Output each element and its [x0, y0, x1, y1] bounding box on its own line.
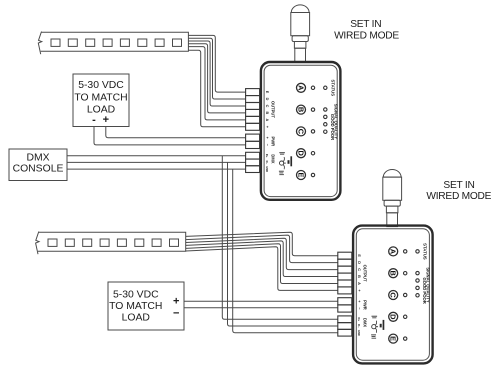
svg-text:A: A: [265, 119, 269, 122]
svg-text:TO MATCH: TO MATCH: [109, 301, 162, 312]
svg-text:DMX: DMX: [271, 154, 276, 163]
svg-text:A: A: [357, 282, 361, 285]
svg-text:5-30 VDC: 5-30 VDC: [78, 80, 124, 91]
svg-text:D+: D+: [265, 154, 269, 158]
svg-text:D: D: [389, 314, 398, 320]
svg-text:STATUS: STATUS: [423, 243, 428, 260]
svg-text:D: D: [296, 151, 305, 157]
svg-text:E: E: [265, 91, 269, 94]
svg-text:B: B: [389, 271, 398, 276]
svg-text:B: B: [265, 112, 269, 115]
svg-text:GND: GND: [265, 166, 269, 172]
svg-text:+: +: [173, 296, 179, 308]
svg-text:E: E: [357, 254, 361, 257]
svg-text:LOAD: LOAD: [87, 104, 115, 115]
svg-text:E: E: [389, 336, 398, 341]
svg-text:-: -: [92, 114, 96, 126]
svg-text:B: B: [296, 107, 305, 112]
svg-text:DMX: DMX: [26, 153, 49, 164]
svg-text:SET IN: SET IN: [350, 19, 381, 30]
svg-text:CONSOLE: CONSOLE: [13, 164, 64, 175]
svg-text:D: D: [265, 98, 269, 101]
svg-text:GOOD POOR: GOOD POOR: [330, 114, 335, 140]
svg-text:C: C: [296, 129, 305, 135]
svg-text:D−: D−: [357, 324, 361, 328]
svg-text:D−: D−: [265, 161, 269, 165]
svg-text:WIRED MODE: WIRED MODE: [334, 31, 399, 42]
svg-text:A: A: [389, 249, 398, 255]
svg-text:A: A: [296, 85, 305, 91]
svg-text:OUTPUT: OUTPUT: [271, 101, 276, 118]
svg-text:WIRED MODE: WIRED MODE: [426, 191, 491, 202]
svg-text:C: C: [357, 268, 361, 271]
svg-text:LOAD: LOAD: [122, 312, 150, 323]
svg-text:GOOD POOR: GOOD POOR: [422, 277, 427, 303]
svg-text:D: D: [357, 261, 361, 264]
svg-text:5-30 VDC: 5-30 VDC: [113, 289, 159, 300]
svg-text:D+: D+: [357, 318, 361, 322]
svg-text:SET IN: SET IN: [443, 180, 474, 191]
svg-text:OUTPUT: OUTPUT: [363, 265, 368, 282]
svg-text:GND: GND: [357, 330, 361, 336]
svg-text:TO MATCH: TO MATCH: [74, 92, 127, 103]
svg-text:C: C: [389, 292, 398, 298]
svg-text:E: E: [296, 173, 305, 178]
svg-text:PWR: PWR: [363, 300, 368, 310]
svg-text:B: B: [357, 275, 361, 278]
svg-text:+: +: [103, 114, 109, 126]
svg-text:−: −: [173, 308, 179, 320]
svg-text:C: C: [265, 105, 269, 108]
svg-text:PWR: PWR: [271, 137, 276, 147]
svg-text:DMX: DMX: [363, 318, 368, 327]
svg-text:STATUS: STATUS: [331, 80, 336, 97]
